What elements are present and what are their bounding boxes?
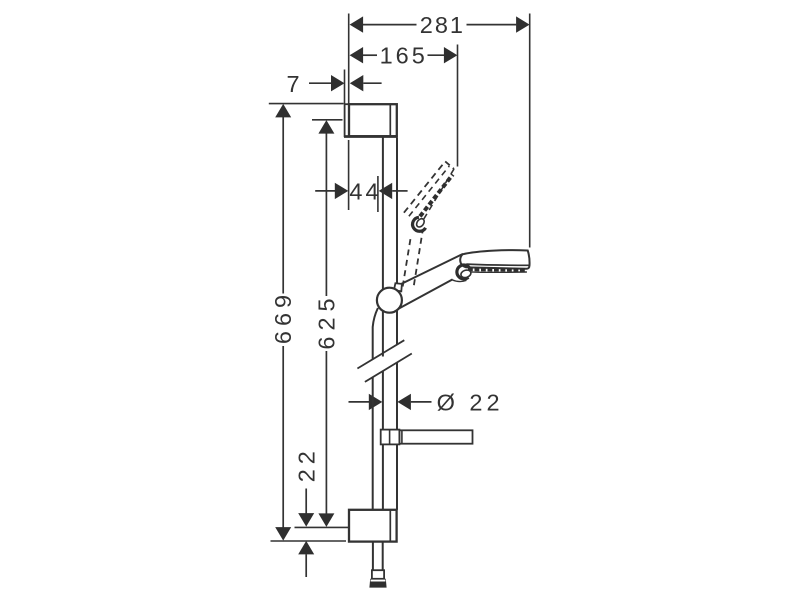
dashed head top cap [445,161,454,169]
dashed head right edge [422,169,454,223]
dimension 7 line [309,82,382,84]
extension line bottom horizontal y=541.0 [271,540,347,542]
svg-text:281: 281 [420,12,465,38]
dimension 669 line [282,117,284,528]
top bracket inner line [389,104,391,136]
dimension 7 right arrow [350,75,364,91]
slider pivot ball [377,288,402,313]
extension line 165-right vertical x=457.5 [457,45,459,167]
dimension 44 left arrow [335,183,349,199]
svg-text:Ø 22: Ø 22 [437,390,504,416]
dashed head left edge [404,161,445,212]
dimension 44 right arrow [379,183,393,199]
hose left line [373,308,378,570]
dimension 281 left arrow [350,16,364,32]
dashed handle right line [414,230,423,285]
dimension 165 left arrow [350,47,364,63]
dimension 625 bottom arrow [318,513,334,527]
soap dish collar inner line [389,430,391,444]
dimension 22 line [305,489,307,578]
top bracket wall plate [345,104,349,136]
dimension 44 line [315,190,407,192]
spray face left cap inner ellipse [460,269,472,279]
dimension diameter 22 right arrow [397,394,411,410]
break symbol diagonal 1 [357,340,404,368]
dashed head cap inner ellipse [415,217,426,228]
dimension 22 bottom arrow [298,541,314,555]
soap dish bar [399,430,472,443]
dashed head cap dark [413,217,426,231]
hand shower handle fill [395,254,466,309]
dimension 22 top arrow [298,513,314,527]
spray face left cap dark [457,265,470,279]
top bracket body [349,104,397,136]
svg-text:669: 669 [270,290,296,344]
rail left line / hose right line [382,137,384,570]
hand shower handle bottom edge [398,279,453,309]
extension line 669-top horizontal y=103.6 [269,103,344,105]
extension lines [269,14,530,542]
soap dish collar on rail [381,430,400,445]
extension line 44-left vertical x=348.6 [348,140,350,210]
dimension diameter 22 line [349,401,432,403]
svg-text:165: 165 [380,43,428,69]
spray face lobe lower outline [452,280,467,282]
svg-text:625: 625 [313,292,339,349]
dimension 669 bottom arrow [275,527,291,541]
extension line 22-top horizontal y=527.4 [295,526,349,528]
dimension 281 right arrow [516,16,530,32]
hose end collar band [372,570,384,579]
shower head mid line [466,264,529,265]
shower head body [460,250,529,269]
dimension 625 line [325,133,327,513]
svg-text:22: 22 [293,446,319,482]
top bracket bottom thick edge [344,135,397,138]
extension line wall-left vertical x=348.7 top [348,14,350,104]
shower head nozzle teeth [468,268,527,272]
hand shower handle top edge [395,254,463,287]
svg-text:44: 44 [349,178,381,204]
bottom bracket inner line [389,510,391,541]
dashed head nozzle teeth [420,175,453,217]
svg-text:7: 7 [286,71,299,97]
dimension 165 right arrow [444,47,458,63]
dimension 281 line [363,24,516,26]
slider clip bump [394,283,402,291]
dashed handle left line [403,236,411,287]
hose end nut dark [369,579,386,588]
dimension 165 line [363,54,444,56]
extension line 7-left vertical x=344.5 [344,70,346,104]
dimension 7 left arrow [331,75,345,91]
hose end nut white stripe [371,580,386,582]
extension line 281-right vertical x=529.7 [529,14,531,248]
dimension 669 top arrow [275,104,291,118]
dimension 625 top arrow [318,120,334,134]
break symbol diagonal 2 [365,354,412,382]
extension line 625-top horizontal y=119.8 [312,119,343,121]
bottom bracket body [349,510,397,542]
extension line 44-right vertical x=377.9 [377,176,379,212]
rail right line [396,137,398,509]
dashed head left inner edge [409,166,449,216]
shower head spray face bottom line [467,271,527,273]
dimension diameter 22 left arrow [369,394,383,410]
soap dish inner line [401,431,403,444]
